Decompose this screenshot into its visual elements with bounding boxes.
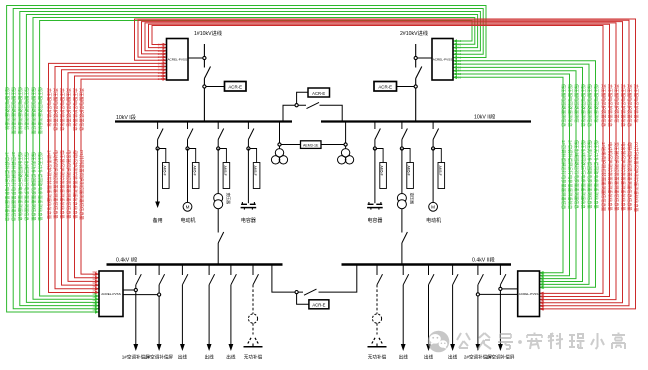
label bus 10kV II <box>474 113 495 121</box>
breaker switch T1 LV side <box>218 232 224 243</box>
wire LV feeder R4 drop <box>452 265 454 276</box>
wire C2 to relay <box>377 149 384 163</box>
label transformer T1 <box>226 193 231 205</box>
breaker switch LV R2 <box>403 274 409 285</box>
wire feeder F1 drop <box>157 122 159 149</box>
capacitor bank C2 <box>367 202 383 210</box>
wire C1 to relay <box>250 149 257 163</box>
monitor box U3 Acrel-PVSS (0.4kV I monitor) <box>99 271 123 317</box>
node coupler <box>295 104 298 107</box>
wire red signal R2 (box PVSS1 to box PVSS3 left loop) <box>55 65 167 291</box>
svg-text:2#空调补偿屏运行电参量遥测遥信息: 2#空调补偿屏运行电参量遥测遥信息 <box>10 152 17 222</box>
monitor box U4 Acrel-PVSS (0.4kV II monitor) <box>518 271 540 317</box>
svg-text:M: M <box>186 205 190 210</box>
wire box U4 tap to R5 <box>480 293 518 295</box>
svg-text:高压配电保护装置信息: 高压配电保护装置信息 <box>619 84 626 128</box>
motor M2 <box>429 202 438 211</box>
wire feeder T1 drop <box>217 122 219 149</box>
net labels red left verticals <box>45 88 85 221</box>
label tags stubs at box PVSS3 <box>92 270 97 312</box>
label bus 10kV I <box>116 113 136 121</box>
svg-text:AM5-F: AM5-F <box>407 166 411 176</box>
label LV feeder R2 <box>399 354 409 361</box>
wire LV feeder L2 outgoing <box>157 285 162 351</box>
svg-text:备用: 备用 <box>153 217 163 224</box>
svg-text:低压配电回路遥测遥信量: 低压配电回路遥测遥信量 <box>10 87 17 135</box>
wire coupler to meter <box>297 92 308 103</box>
svg-text:低压出线回路运行电参量遥测遥信息: 低压出线回路运行电参量遥测遥信息 <box>17 152 24 221</box>
meter box ACR-E incomer1 <box>225 82 247 92</box>
wire red signal R3 (box PVSS1 to box PVSS3 left loop) <box>62 68 167 287</box>
wire LV feeder R2 drop <box>402 265 404 276</box>
disconnect switch LV coupler <box>304 289 317 295</box>
svg-text:变压器: 变压器 <box>410 193 415 205</box>
motor M1 <box>183 202 192 211</box>
wire feeder F3 drop <box>432 122 434 149</box>
watermark text 公众号·安科瑞小高 (drawn strokes) <box>457 333 625 350</box>
wire feeder C1 drop <box>247 122 249 149</box>
svg-text:低压配电回路遥测遥信: 低压配电回路遥测遥信 <box>3 87 10 131</box>
wire red signal R5 (box PVSS1 to box PVSS3 left loop) <box>75 74 167 279</box>
svg-text:AM5-F: AM5-F <box>380 166 384 176</box>
contactor circle var-comp <box>372 314 381 323</box>
wire feeder C2 <box>374 149 376 204</box>
svg-text:低压配电回路遥测遥信量: 低压配电回路遥测遥信量 <box>17 87 24 135</box>
node incomer1 lower <box>203 85 206 88</box>
svg-text:4A6: 4A6 <box>540 271 545 275</box>
disconnect switch QS1 incomer1 <box>204 67 210 79</box>
svg-text:变压器保护测控装置遥测遥信信息量: 变压器保护测控装置遥测遥信信息量 <box>58 150 65 219</box>
svg-text:AM5-F: AM5-F <box>192 166 196 176</box>
svg-text:10kV II段: 10kV II段 <box>474 113 495 121</box>
wire LV feeder L3 drop <box>181 265 183 276</box>
wire green signal G10 (box PVSS2 to box PVSS4 right loop) <box>453 69 576 281</box>
svg-text:1#进线保护测控装置遥测遥信信息量: 1#进线保护测控装置遥测遥信信息量 <box>45 150 52 220</box>
wire LV feeder R2 outgoing <box>401 285 406 351</box>
svg-text:AM5-F: AM5-F <box>438 166 442 176</box>
capacitor var-comp <box>368 344 387 347</box>
svg-text:ACREL-PVSS: ACREL-PVSS <box>519 292 539 296</box>
svg-text:低压配电回路遥测信息: 低压配电回路遥测信息 <box>560 84 567 128</box>
wire LV feeder L6 drop <box>252 265 254 276</box>
label LV feeder L1 <box>122 354 150 361</box>
svg-text:高压配电保护装置信: 高压配电保护装置信 <box>613 84 620 123</box>
svg-text:PT并列装置保护测控遥测遥信信息量: PT并列装置保护测控遥测遥信信息量 <box>78 150 85 221</box>
wire PT link <box>281 144 344 146</box>
meter box ACR-E incomer2 <box>374 82 397 92</box>
wire LV feeder R6 outgoing <box>498 285 503 351</box>
label feeder F3 <box>426 217 441 224</box>
wire LV coupler to meter <box>297 294 309 305</box>
wire red signal R10 (box PVSS1 over top to box PVSS4) <box>145 23 616 302</box>
relay AM5-F C1 <box>253 163 260 189</box>
svg-text:母联保护测控装置遥测遥信息信息量: 母联保护测控装置遥测遥信息信息量 <box>71 150 78 219</box>
svg-text:ACREL-PVSS: ACREL-PVSS <box>167 57 187 61</box>
label var-comp <box>368 354 387 361</box>
svg-text:0.4kV I段: 0.4kV I段 <box>116 256 137 264</box>
svg-text:低压配电回路遥测信: 低压配电回路遥测信 <box>592 84 599 123</box>
node tap L1 <box>134 288 137 291</box>
svg-text:高压配电保护装置信息: 高压配电保护装置信息 <box>58 88 65 132</box>
svg-text:0.4kV II段: 0.4kV II段 <box>472 256 495 264</box>
net labels green left verticals <box>3 87 43 222</box>
bus 10kV section II <box>321 120 531 122</box>
wire F1 to relay <box>159 149 166 163</box>
wire red signal R1 (box PVSS1 to box PVSS3 left loop) <box>49 62 167 295</box>
bus 0.4kV section I <box>107 263 283 266</box>
wire green signal G7 (box PVSS2 to box PVSS4 right loop) <box>453 59 596 289</box>
wire feeder F3 to motor <box>432 149 434 203</box>
transformer T1 (two windings) <box>214 194 223 209</box>
wire feeder T2 drop <box>401 122 403 149</box>
label tags stubs at box PVSS4 <box>540 271 545 311</box>
label feeder C1 <box>241 217 256 224</box>
breaker switch LV R6 <box>500 274 506 285</box>
svg-text:3A1: 3A1 <box>92 288 97 292</box>
wire green signal G3 (box PVSS3 left loop to box PVSS2) <box>20 12 481 308</box>
node incomer1 upper <box>203 56 206 59</box>
svg-text:PT并列装置保护测控遥测遥信信息量: PT并列装置保护测控遥测遥信信息量 <box>632 142 639 213</box>
watermark wechat icon <box>428 331 450 353</box>
svg-text:变压器保护测控装置遥测遥信信息量: 变压器保护测控装置遥测遥信信息量 <box>613 142 620 211</box>
breaker switch T2 LV side <box>402 232 408 243</box>
svg-text:ACREL-PVSS: ACREL-PVSS <box>101 292 121 296</box>
label feeder F2 <box>180 217 195 224</box>
wire T1 to relay <box>220 149 227 163</box>
wire LV var-comp feeder at x=253.0 <box>252 285 254 314</box>
label LV feeder R3 <box>424 354 434 361</box>
svg-text:低压出线回路运行电参量遥测遥信息: 低压出线回路运行电参量遥测遥信息 <box>23 152 30 221</box>
wire feeder T1 upper <box>217 149 219 194</box>
wire F2 to relay <box>189 149 196 163</box>
svg-text:AEM3-1E: AEM3-1E <box>303 144 319 148</box>
svg-text:低压出线回路运行电参量遥测遥信息: 低压出线回路运行电参量遥测遥信息 <box>573 140 580 209</box>
svg-text:低压无功补偿回路电参量遥测信息量: 低压无功补偿回路电参量遥测信息量 <box>592 140 599 209</box>
breaker switch LV R1 <box>377 274 383 285</box>
svg-text:2AB6: 2AB6 <box>455 75 462 79</box>
breaker switch LV R3 <box>429 274 435 285</box>
svg-text:低压配电回路遥测信息: 低压配电回路遥测信息 <box>586 84 593 128</box>
svg-text:ACR-E: ACR-E <box>378 85 392 90</box>
arrows var-comp <box>372 337 382 344</box>
node T2 <box>400 147 403 150</box>
node incomer2 upper <box>414 56 417 59</box>
wire box U1 to incomer1 <box>188 57 203 59</box>
wire meter to incomer2 <box>397 86 415 88</box>
wire red signal R9 (box PVSS1 over top to box PVSS4) <box>142 22 623 305</box>
svg-text:低压配电回路遥测遥信: 低压配电回路遥测遥信 <box>23 87 30 131</box>
wire green signal G2 (box PVSS3 left loop to box PVSS2) <box>13 9 483 311</box>
svg-text:1#空调补偿屏运行电参量遥测遥信息: 1#空调补偿屏运行电参量遥测遥信息 <box>3 152 10 222</box>
wire LV feeder L1 drop <box>135 265 137 276</box>
meter box AEM3-1E <box>301 141 322 149</box>
wire red signal R11 (box PVSS1 over top to box PVSS4) <box>149 24 610 298</box>
wire var-comp mid <box>252 323 254 334</box>
capacitor var-comp <box>244 344 263 347</box>
breaker switch F3 <box>433 129 439 140</box>
voltage transformer PT2 (3 windings) <box>338 149 354 164</box>
wire feeder T2 upper <box>401 149 403 194</box>
meter box ACR-E coupler <box>308 88 330 97</box>
breaker switch C2 <box>375 129 381 140</box>
svg-text:电动机: 电动机 <box>426 217 441 224</box>
svg-text:3B6: 3B6 <box>92 292 97 296</box>
meter box ACR-E LV coupler <box>309 300 329 309</box>
node tap R6 <box>499 287 502 290</box>
wire incomer1 drop <box>203 44 205 122</box>
node incomer2 lower <box>414 85 417 88</box>
wire LV feeder R3 outgoing <box>426 285 431 351</box>
wire red signal R4 (box PVSS1 to box PVSS3 left loop) <box>68 71 167 283</box>
svg-text:2#空调补偿屏运行电参量遥测遥信息: 2#空调补偿屏运行电参量遥测遥信息 <box>566 140 573 210</box>
label LV feeder R6 <box>486 354 514 361</box>
svg-text:3A3: 3A3 <box>92 281 97 285</box>
wire LV feeder L2 drop <box>158 265 160 276</box>
svg-text:电容器保护测控装置遥测遥信信息量: 电容器保护测控装置遥测遥信信息量 <box>65 150 72 219</box>
wire T2 to 0.4kV bus II <box>401 209 403 264</box>
svg-text:变压器: 变压器 <box>226 193 231 205</box>
node PT left <box>278 143 281 146</box>
wire incomer2 to box U2 <box>417 57 432 59</box>
svg-text:高压配电保护装置信息: 高压配电保护装置信息 <box>600 84 607 128</box>
svg-text:ACR-E: ACR-E <box>312 303 325 308</box>
breaker switch C1 <box>248 129 254 140</box>
transformer T2 (two windings) <box>397 194 406 209</box>
label var-comp <box>244 354 263 361</box>
wire red signal R7 (box PVSS1 over top to box PVSS4) <box>135 19 636 311</box>
wire box U3 tap to L1 <box>123 289 134 291</box>
label feeder C2 <box>367 217 382 224</box>
wire LV feeder L1 outgoing <box>133 285 138 351</box>
wire green signal G4 (box PVSS3 left loop to box PVSS2) <box>26 15 477 305</box>
wire red signal R6 (box PVSS1 to box PVSS3 left loop) <box>81 77 167 276</box>
wire green signal G11 (box PVSS2 to box PVSS4 right loop) <box>453 72 570 277</box>
label tags green stubs at box PVSS2 <box>455 39 462 79</box>
svg-text:低压配电回路遥测遥信量: 低压配电回路遥测遥信量 <box>30 87 37 135</box>
relay AM5-F C2 <box>380 163 387 189</box>
wire red signal R8 (box PVSS1 over top to box PVSS4) <box>138 20 629 307</box>
wire LV feeder L5 outgoing <box>229 285 234 351</box>
node C2 <box>373 147 376 150</box>
svg-text:1AA6: 1AA6 <box>158 43 165 47</box>
svg-text:低压配电回路遥测信息: 低压配电回路遥测信息 <box>579 84 586 128</box>
breaker switch T1 <box>218 129 224 140</box>
node F2 <box>186 147 189 150</box>
wire feeder F2 to motor <box>187 149 189 203</box>
contactor circle var-comp <box>248 314 257 323</box>
wire green signal G12 (box PVSS2 to box PVSS4 right loop) <box>453 76 563 275</box>
relay AM5-F F2 <box>192 163 199 189</box>
capacitor bank C1 <box>241 202 257 210</box>
svg-text:1#空调补偿屏: 1#空调补偿屏 <box>486 354 514 361</box>
svg-text:无功补偿: 无功补偿 <box>244 354 263 361</box>
wire incomer2 drop <box>415 44 417 122</box>
label transformer T2 <box>410 193 415 205</box>
breaker switch LV L3 <box>182 274 188 285</box>
label tags red stubs at box PVSS1 <box>158 43 165 82</box>
breaker switch F2 <box>188 129 194 140</box>
svg-text:ACR-E: ACR-E <box>312 91 325 96</box>
wire T2 to relay <box>404 149 411 163</box>
label feeder F1 <box>153 217 163 224</box>
wire LV feeder R5 drop <box>477 265 479 276</box>
svg-text:电容器: 电容器 <box>367 217 382 224</box>
voltage transformer PT1 (3 windings) <box>271 149 287 164</box>
node F3 <box>432 147 435 150</box>
node LV coupler <box>295 291 298 294</box>
svg-text:1#空调补偿屏运行电参量遥测遥信息: 1#空调补偿屏运行电参量遥测遥信息 <box>560 140 567 210</box>
svg-text:高压配电保护装置信息: 高压配电保护装置信息 <box>626 84 633 128</box>
wire green signal G1 (box PVSS3 left loop to box PVSS2) <box>7 6 486 314</box>
monitor box U1 Acrel-PVSS (1# incomer monitor) <box>167 39 189 81</box>
label LV feeder R4 <box>448 354 458 361</box>
svg-text:高压配电保护装置信息: 高压配电保护装置信息 <box>71 88 78 132</box>
svg-text:高压配电保护装置信: 高压配电保护装置信 <box>632 84 639 123</box>
wire green signal G5 (box PVSS3 left loop to box PVSS2) <box>33 18 475 302</box>
wire LV feeder L4 outgoing <box>207 285 212 351</box>
wire LV feeder R5 outgoing <box>476 285 481 351</box>
wire coupler drop right <box>320 105 343 121</box>
breaker switch LV L4 <box>209 274 215 285</box>
svg-text:低压配电回路遥测信: 低压配电回路遥测信 <box>573 84 580 123</box>
label LV feeder R5 <box>464 354 492 361</box>
svg-text:低压无功补偿回路电参量遥测信息量: 低压无功补偿回路电参量遥测信息量 <box>586 140 593 209</box>
bus 10kV section I <box>115 120 292 122</box>
svg-text:1AB6: 1AB6 <box>158 77 165 81</box>
wire feeder F2 drop <box>187 122 189 149</box>
svg-text:高压配电保护装置信息: 高压配电保护装置信息 <box>606 84 613 128</box>
wire LV var-comp feeder at x=377.0 <box>376 285 378 314</box>
svg-text:3A6: 3A6 <box>92 270 97 274</box>
svg-text:1#进线保护测控装置遥测遥信信息量: 1#进线保护测控装置遥测遥信信息量 <box>600 142 607 212</box>
node F1 <box>156 147 159 150</box>
disconnect switch QS2 incomer2 <box>416 67 422 79</box>
wire PT drop bus I <box>279 123 281 149</box>
net labels green right verticals <box>560 84 600 210</box>
label 2#10kV incomer <box>400 29 428 37</box>
wire LV coupler riser <box>319 265 357 293</box>
wire green signal G6 (box PVSS3 left loop to box PVSS2) <box>40 21 472 298</box>
wire coupler drop left <box>283 105 306 121</box>
wire LV feeder L4 drop <box>208 265 210 276</box>
node T1 <box>217 147 220 150</box>
node PT right <box>344 143 347 146</box>
relay AM5-F T2 <box>407 163 414 189</box>
label LV feeder L4 <box>204 354 214 361</box>
breaker switch LV L1 <box>136 274 142 285</box>
label LV feeder L3 <box>178 354 188 361</box>
svg-text:ACR-E: ACR-E <box>228 85 242 90</box>
svg-text:电动机: 电动机 <box>180 217 195 224</box>
svg-text:4B6: 4B6 <box>540 291 545 295</box>
monitor box U2 Acrel-PVSS (2# incomer monitor) <box>432 39 453 81</box>
net labels red right verticals <box>600 84 640 213</box>
svg-text:AM5-F: AM5-F <box>253 166 257 176</box>
breaker switch F1 <box>158 129 164 140</box>
svg-text:2#空调补偿屏: 2#空调补偿屏 <box>145 354 173 361</box>
node tap L2 <box>158 293 161 296</box>
svg-text:低压无功补偿回路电参量遥测信息量: 低压无功补偿回路电参量遥测信息量 <box>30 152 37 221</box>
wire feeder F1 outgoing <box>155 149 160 209</box>
svg-text:电容器: 电容器 <box>241 217 256 224</box>
bus 0.4kV section II <box>342 263 512 266</box>
svg-text:AM5-F: AM5-F <box>162 166 166 176</box>
svg-text:2AA6: 2AA6 <box>455 39 462 43</box>
svg-text:电动机保护测控装置遥测遥信信息量: 电动机保护测控装置遥测遥信信息量 <box>606 142 613 211</box>
breaker switch LV L6 <box>253 274 259 285</box>
svg-text:10kV I段: 10kV I段 <box>116 113 136 121</box>
wire box U3 tap to L2 <box>123 294 158 296</box>
wire green signal G9 (box PVSS2 to box PVSS4 right loop) <box>453 66 583 284</box>
wire LV feeder L5 drop <box>230 265 232 276</box>
svg-text:2#10kV进线: 2#10kV进线 <box>400 29 428 37</box>
svg-text:母联保护测控装置遥测遥信息信息量: 母联保护测控装置遥测遥信息信息量 <box>626 142 633 211</box>
breaker switch LV L2 <box>159 274 165 285</box>
svg-text:低压出线回路运行电参量遥测遥信息: 低压出线回路运行电参量遥测遥信息 <box>579 140 586 209</box>
breaker switch LV L5 <box>231 274 237 285</box>
svg-text:高压配电保护装置信: 高压配电保护装置信 <box>65 88 72 127</box>
wire green signal G8 (box PVSS2 to box PVSS4 right loop) <box>453 62 589 286</box>
svg-text:出线: 出线 <box>399 354 409 361</box>
svg-text:高压配电保护装置信: 高压配电保护装置信 <box>45 88 52 127</box>
svg-text:3A2: 3A2 <box>92 285 97 289</box>
label bus 0.4kV II <box>472 256 495 264</box>
relay AM5-F T1 <box>223 163 230 189</box>
svg-text:AM5-F: AM5-F <box>223 166 227 176</box>
svg-text:高压配电保护装置信息: 高压配电保护装置信息 <box>78 88 85 132</box>
wire LV coupler drop <box>272 265 303 293</box>
svg-text:出线: 出线 <box>204 354 214 361</box>
relay AM5-F F3 <box>438 163 445 189</box>
wire incomer1 to meter ACR-E <box>206 86 225 88</box>
svg-text:电容器保护测控装置遥测遥信信息量: 电容器保护测控装置遥测遥信信息量 <box>619 142 626 211</box>
wire LV feeder R3 drop <box>428 265 430 276</box>
svg-text:出线: 出线 <box>178 354 188 361</box>
node C1 <box>247 147 250 150</box>
svg-text:3A4: 3A4 <box>92 277 97 281</box>
wire T1 to 0.4kV bus I <box>217 209 219 264</box>
wire LV feeder R1 drop <box>376 265 378 276</box>
wire box U4 tap to R6 <box>502 288 518 290</box>
wire LV feeder R4 outgoing <box>450 285 455 351</box>
arrows var-comp <box>248 337 258 344</box>
breaker switch LV R5 <box>478 274 484 285</box>
label 1#10kV incomer <box>194 29 222 37</box>
svg-text:ACREL-PVSS: ACREL-PVSS <box>433 57 453 61</box>
label LV feeder L2 <box>145 354 173 361</box>
svg-text:M: M <box>431 205 435 210</box>
wire var-comp mid <box>376 323 378 334</box>
svg-text:无功补偿: 无功补偿 <box>368 354 387 361</box>
svg-text:低压无功补偿回路电参量遥测信息量: 低压无功补偿回路电参量遥测信息量 <box>36 152 43 221</box>
svg-text:高压配电保护装置信息: 高压配电保护装置信息 <box>52 88 59 132</box>
wire LV feeder L3 outgoing <box>180 285 185 351</box>
breaker switch LV R4 <box>453 274 459 285</box>
node tap R5 <box>476 293 479 296</box>
relay AM5-F F1 <box>162 163 169 189</box>
wire F3 to relay <box>435 149 442 163</box>
svg-text:出线: 出线 <box>226 354 236 361</box>
label bus 0.4kV I <box>116 256 137 264</box>
wire PT drop bus II <box>345 123 347 149</box>
svg-text:3A5: 3A5 <box>92 274 97 278</box>
wire feeder C1 <box>247 149 249 204</box>
wire red signal R12 (box PVSS1 over top to box PVSS4) <box>152 26 603 296</box>
svg-text:电动机保护测控装置遥测遥信信息量: 电动机保护测控装置遥测遥信信息量 <box>52 150 59 219</box>
svg-text:出线: 出线 <box>424 354 434 361</box>
svg-text:低压配电回路遥测信息: 低压配电回路遥测信息 <box>566 84 573 128</box>
svg-text:低压配电回路遥测遥信量: 低压配电回路遥测遥信量 <box>36 87 43 135</box>
